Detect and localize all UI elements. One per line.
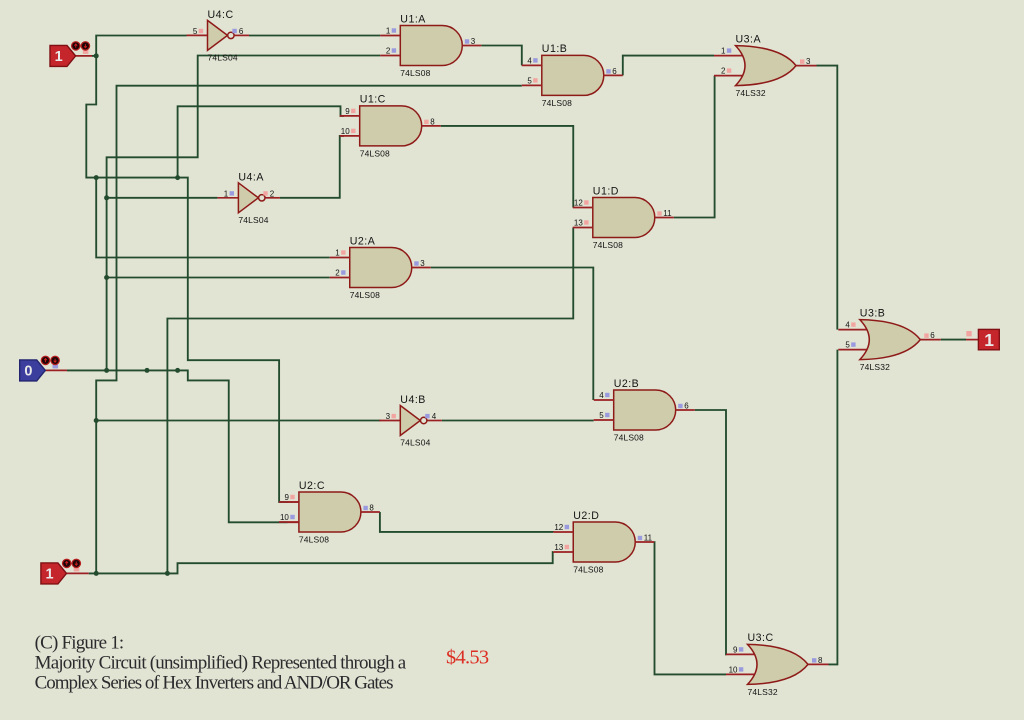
svg-text:U3:A: U3:A — [736, 33, 762, 45]
svg-text:U1:C: U1:C — [360, 94, 386, 106]
svg-text:11: 11 — [663, 209, 672, 218]
svg-text:10: 10 — [341, 127, 350, 136]
svg-text:74LS32: 74LS32 — [748, 687, 778, 697]
svg-text:2: 2 — [335, 269, 340, 278]
svg-text:U3:B: U3:B — [860, 307, 886, 319]
svg-text:4: 4 — [845, 321, 850, 330]
svg-text:74LS08: 74LS08 — [573, 565, 603, 575]
svg-text:6: 6 — [930, 331, 935, 340]
svg-text:74LS04: 74LS04 — [238, 215, 268, 225]
svg-text:6: 6 — [612, 67, 617, 76]
svg-text:11: 11 — [644, 534, 653, 543]
svg-text:74LS32: 74LS32 — [736, 88, 766, 98]
svg-text:0: 0 — [24, 364, 32, 380]
svg-text:U3:C: U3:C — [748, 632, 774, 644]
svg-text:74LS08: 74LS08 — [400, 68, 430, 78]
svg-text:9: 9 — [733, 645, 738, 654]
svg-text:4: 4 — [527, 56, 532, 65]
svg-text:3: 3 — [806, 57, 811, 66]
svg-text:$4.53: $4.53 — [446, 647, 489, 669]
svg-text:3: 3 — [420, 259, 425, 268]
svg-text:2: 2 — [721, 67, 726, 76]
svg-text:5: 5 — [845, 341, 850, 350]
svg-text:5: 5 — [193, 27, 198, 36]
svg-text:Majority Circuit (unsimplified: Majority Circuit (unsimplified) Represen… — [35, 652, 407, 673]
svg-text:U1:D: U1:D — [593, 185, 619, 197]
svg-text:13: 13 — [554, 543, 563, 552]
svg-text:U2:D: U2:D — [573, 510, 599, 522]
svg-text:1: 1 — [46, 567, 54, 583]
svg-text:5: 5 — [599, 411, 604, 420]
svg-text:1: 1 — [984, 330, 994, 350]
svg-text:12: 12 — [554, 523, 563, 532]
svg-text:8: 8 — [818, 656, 823, 665]
svg-text:74LS08: 74LS08 — [350, 290, 380, 300]
svg-text:74LS08: 74LS08 — [299, 535, 329, 545]
svg-text:9: 9 — [345, 107, 350, 116]
svg-text:8: 8 — [430, 117, 435, 126]
svg-text:U2:C: U2:C — [299, 480, 325, 492]
svg-text:U2:A: U2:A — [350, 235, 376, 247]
svg-text:4: 4 — [432, 412, 437, 421]
svg-text:10: 10 — [729, 665, 738, 674]
svg-text:3: 3 — [471, 37, 476, 46]
svg-text:4: 4 — [599, 391, 604, 400]
svg-text:74LS04: 74LS04 — [400, 438, 430, 448]
svg-text:U4:A: U4:A — [238, 171, 264, 183]
svg-text:U1:A: U1:A — [400, 13, 426, 25]
svg-text:5: 5 — [527, 76, 532, 85]
svg-text:2: 2 — [386, 47, 391, 56]
svg-text:74LS32: 74LS32 — [860, 362, 890, 372]
svg-text:6: 6 — [684, 402, 689, 411]
svg-text:1: 1 — [335, 249, 340, 258]
svg-text:(C) Figure 1:: (C) Figure 1: — [35, 633, 124, 654]
svg-text:12: 12 — [574, 199, 583, 208]
svg-text:U2:B: U2:B — [614, 378, 640, 390]
svg-text:1: 1 — [721, 47, 726, 56]
svg-text:74LS08: 74LS08 — [593, 240, 623, 250]
svg-text:74LS08: 74LS08 — [542, 98, 572, 108]
svg-text:1: 1 — [224, 189, 229, 198]
svg-text:74LS08: 74LS08 — [614, 433, 644, 443]
svg-text:9: 9 — [284, 493, 289, 502]
svg-text:U4:C: U4:C — [208, 9, 234, 21]
svg-text:U1:B: U1:B — [542, 43, 568, 55]
svg-text:U4:B: U4:B — [400, 394, 426, 406]
svg-text:8: 8 — [369, 504, 374, 513]
svg-text:Complex Series of Hex Inverter: Complex Series of Hex Inverters and AND/… — [35, 672, 393, 693]
svg-text:10: 10 — [280, 513, 289, 522]
svg-text:6: 6 — [239, 27, 244, 36]
svg-text:1: 1 — [55, 49, 63, 65]
svg-text:1: 1 — [386, 27, 391, 36]
svg-text:74LS08: 74LS08 — [360, 148, 390, 158]
svg-text:2: 2 — [270, 189, 275, 198]
svg-text:3: 3 — [386, 412, 391, 421]
svg-text:13: 13 — [574, 219, 583, 228]
svg-text:74LS04: 74LS04 — [208, 52, 238, 62]
